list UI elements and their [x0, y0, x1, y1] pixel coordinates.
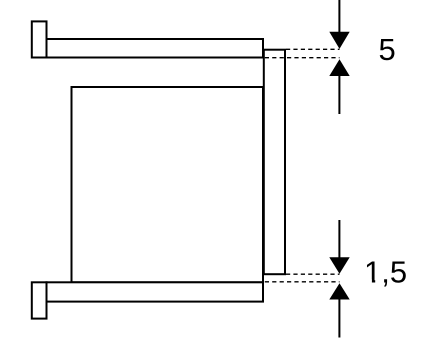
svg-text:1,5: 1,5 — [364, 255, 407, 290]
dashed extension of bottom bar top edge — [265, 281, 340, 283]
dashed extension of rail bottom edge — [286, 273, 340, 275]
bottom-left end cap — [32, 282, 47, 318]
side panel rail (vertical, right of cabinet) — [264, 50, 285, 275]
top-left end cap — [32, 21, 47, 57]
dimension "5": down arrowhead — [329, 32, 349, 49]
svg-text:5: 5 — [379, 32, 396, 67]
dimension "5": lower leader line — [338, 75, 340, 114]
cabinet body (large square) — [72, 87, 264, 282]
dimension "1,5": up arrowhead — [329, 283, 349, 299]
dashed extension of top bar bottom edge — [265, 57, 340, 59]
bottom mounting bar — [47, 282, 264, 301]
top mounting bar — [47, 39, 264, 58]
dimension "5": upper leader line — [338, 0, 340, 33]
dimension "1,5": lower leader line — [338, 299, 340, 338]
dimension "5": up arrowhead — [329, 59, 349, 76]
dimension "1,5": down arrowhead — [329, 257, 349, 274]
dimension "1,5": upper leader line — [338, 220, 340, 258]
dashed extension of rail top edge — [286, 48, 340, 50]
dimension "1,5" label — [364, 255, 407, 290]
